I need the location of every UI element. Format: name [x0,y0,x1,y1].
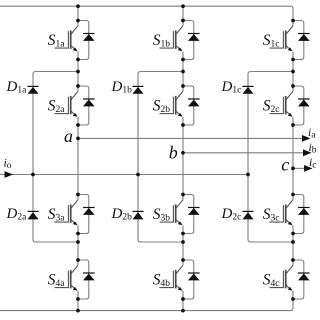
svg-text:io: io [4,156,12,172]
svg-text:S1c: S1c [263,32,280,49]
svg-text:S1b: S1b [153,32,171,49]
svg-text:D2c: D2c [221,206,242,223]
svg-text:S3a: S3a [48,206,66,223]
svg-text:S2b: S2b [153,98,171,115]
svg-text:D1b: D1b [111,79,133,96]
svg-text:ib: ib [309,140,317,156]
svg-text:D1a: D1a [6,79,28,96]
svg-text:ia: ia [308,125,316,141]
svg-text:ic: ic [309,155,317,171]
svg-text:S3c: S3c [263,206,280,223]
svg-text:D2a: D2a [6,206,28,223]
svg-text:S3b: S3b [153,206,171,223]
svg-text:a: a [64,126,73,146]
svg-text:S2a: S2a [48,98,66,115]
svg-text:S4c: S4c [263,272,280,289]
svg-text:b: b [169,143,178,163]
svg-text:D1c: D1c [221,79,242,96]
svg-text:S4b: S4b [153,272,171,289]
svg-text:D2b: D2b [111,206,133,223]
svg-text:S1a: S1a [48,32,66,49]
svg-text:S2c: S2c [263,98,280,115]
svg-text:S4a: S4a [48,272,66,289]
svg-text:c: c [281,155,289,175]
